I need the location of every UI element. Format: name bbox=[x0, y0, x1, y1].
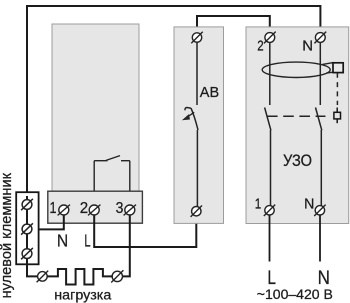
svg-text:нулевой клеммник: нулевой клеммник bbox=[0, 172, 15, 298]
svg-text:УЗО: УЗО bbox=[283, 152, 312, 170]
UZO N contact blade bbox=[316, 108, 322, 131]
wire L: jumper from AB top terminal to UZO terminal 2 bbox=[197, 16, 270, 34]
mechanical linkage dashed bbox=[267, 115, 326, 117]
block terminal middle bbox=[21, 223, 33, 234]
UZO N conductor upper bbox=[319, 41, 321, 105]
load left terminal bbox=[37, 271, 49, 283]
terminal 2 of strip bbox=[88, 205, 100, 216]
AB conductor lower bbox=[196, 130, 198, 208]
UZO box bbox=[246, 27, 349, 224]
UZO N conductor lower bbox=[320, 130, 322, 206]
wire stub N supply bbox=[319, 215, 321, 262]
UZO terminal 2 (top) bbox=[264, 32, 276, 44]
wire stub L supply bbox=[269, 215, 271, 262]
UZO terminal N (top) bbox=[314, 32, 326, 44]
wire: terminal 1 to neutral block middle bbox=[32, 212, 64, 229]
svg-text:1: 1 bbox=[50, 200, 57, 217]
wire: switch right leg to terminal 3 bbox=[129, 161, 131, 206]
svg-text:2: 2 bbox=[257, 38, 263, 55]
svg-text:N: N bbox=[57, 231, 68, 251]
svg-text:N: N bbox=[302, 38, 313, 55]
switch S1 inside appliance bbox=[94, 156, 130, 161]
load right terminal bbox=[111, 270, 123, 282]
svg-text:N: N bbox=[304, 195, 314, 212]
load meander symbol bbox=[47, 269, 113, 285]
link from CT to trip square bbox=[323, 63, 334, 73]
current transformer ellipse bbox=[262, 62, 330, 77]
wire through neutral block down to load bbox=[27, 196, 38, 276]
UZO L conductor lower bbox=[270, 130, 272, 206]
wire: terminal 2 down-right-up to AB bottom terminal bbox=[94, 212, 196, 247]
appliance box bbox=[52, 24, 139, 197]
UZO L contact blade bbox=[265, 108, 271, 131]
AB top terminal bbox=[191, 32, 202, 43]
breaker AB box bbox=[174, 27, 224, 224]
terminal strip bbox=[48, 191, 143, 223]
AB bottom terminal bbox=[191, 206, 202, 217]
svg-text:3: 3 bbox=[116, 200, 124, 217]
AB breaker contact Q1 bbox=[185, 108, 198, 131]
svg-text:АВ: АВ bbox=[200, 85, 219, 101]
neutral terminal block bbox=[16, 192, 38, 264]
trip relay square bbox=[333, 63, 343, 73]
wire N: neutral loop from UZO top-N terminal to neutral terminal block bbox=[27, 6, 320, 196]
solenoid actuator bbox=[334, 108, 341, 124]
terminal 1 of strip bbox=[58, 205, 70, 216]
wire: switch left leg to terminal 2 bbox=[93, 161, 95, 206]
UZO L conductor upper bbox=[269, 41, 271, 105]
dashed link down bbox=[336, 73, 338, 105]
block terminal top bbox=[21, 199, 33, 210]
UZO terminal 1 (bottom) bbox=[264, 205, 275, 216]
AB trip arrow head bbox=[182, 114, 190, 120]
terminal 3 of strip bbox=[124, 205, 136, 216]
AB conductor upper bbox=[196, 41, 198, 105]
wire: terminal 3 down to load right terminal bbox=[120, 212, 130, 276]
svg-text:нагрузка: нагрузка bbox=[54, 286, 111, 302]
svg-text:L: L bbox=[84, 231, 90, 251]
svg-text:1: 1 bbox=[255, 195, 261, 212]
block terminal bottom bbox=[21, 248, 33, 259]
svg-text:2: 2 bbox=[80, 200, 88, 217]
svg-text:~100–420 В: ~100–420 В bbox=[257, 287, 333, 302]
UZO terminal N (bottom) bbox=[314, 205, 325, 216]
